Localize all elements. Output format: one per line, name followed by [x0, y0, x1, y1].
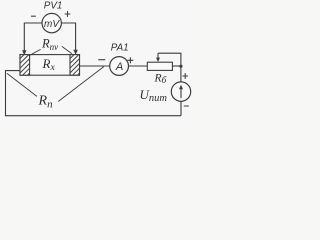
- wire: voltmeter left lead: [24, 23, 42, 51]
- wire: Rb to node: [172, 65, 181, 67]
- voltmeter PV1: [42, 13, 61, 32]
- rheostat wiper arrow: [157, 53, 159, 58]
- wire: source to bottom rail: [180, 101, 182, 115]
- leader line Rpv right: [62, 46, 72, 53]
- resistor Rx body: [20, 55, 80, 76]
- leader line Rp right: [58, 67, 104, 102]
- source Upit (current-source circle with up arrow): [171, 82, 190, 101]
- wire: node to source: [180, 66, 182, 82]
- wire: left current lead and bottom rail: [6, 71, 181, 116]
- leader line Rpv left: [29, 49, 41, 55]
- wire: voltmeter right lead: [61, 23, 75, 51]
- junction node: [179, 65, 182, 68]
- ammeter PA1: [110, 57, 129, 76]
- Rx left current terminal (hatched): [20, 55, 30, 76]
- wire: voltmeter left lead arrowhead: [22, 50, 26, 55]
- svg-text:PV1: PV1: [44, 1, 63, 12]
- wire: wiper to right rail: [158, 53, 181, 66]
- polarity minus (ammeter): [98, 59, 105, 61]
- leader line Rp left: [7, 73, 37, 96]
- svg-text:mV: mV: [44, 19, 60, 30]
- wire: Rx to ammeter: [80, 65, 110, 67]
- polarity plus (ammeter): [128, 57, 134, 63]
- polarity minus (source): [184, 105, 189, 107]
- Rx right current terminal (hatched): [70, 55, 80, 76]
- polarity plus (voltmeter): [65, 11, 71, 17]
- wire: ammeter to Rb: [129, 65, 148, 67]
- svg-text:A: A: [115, 61, 123, 73]
- polarity minus (voltmeter): [31, 15, 36, 17]
- wire: voltmeter right lead arrowhead: [73, 50, 77, 55]
- svg-text:PA1: PA1: [111, 42, 129, 53]
- polarity plus (source): [182, 73, 188, 79]
- rheostat Rb: [147, 62, 172, 70]
